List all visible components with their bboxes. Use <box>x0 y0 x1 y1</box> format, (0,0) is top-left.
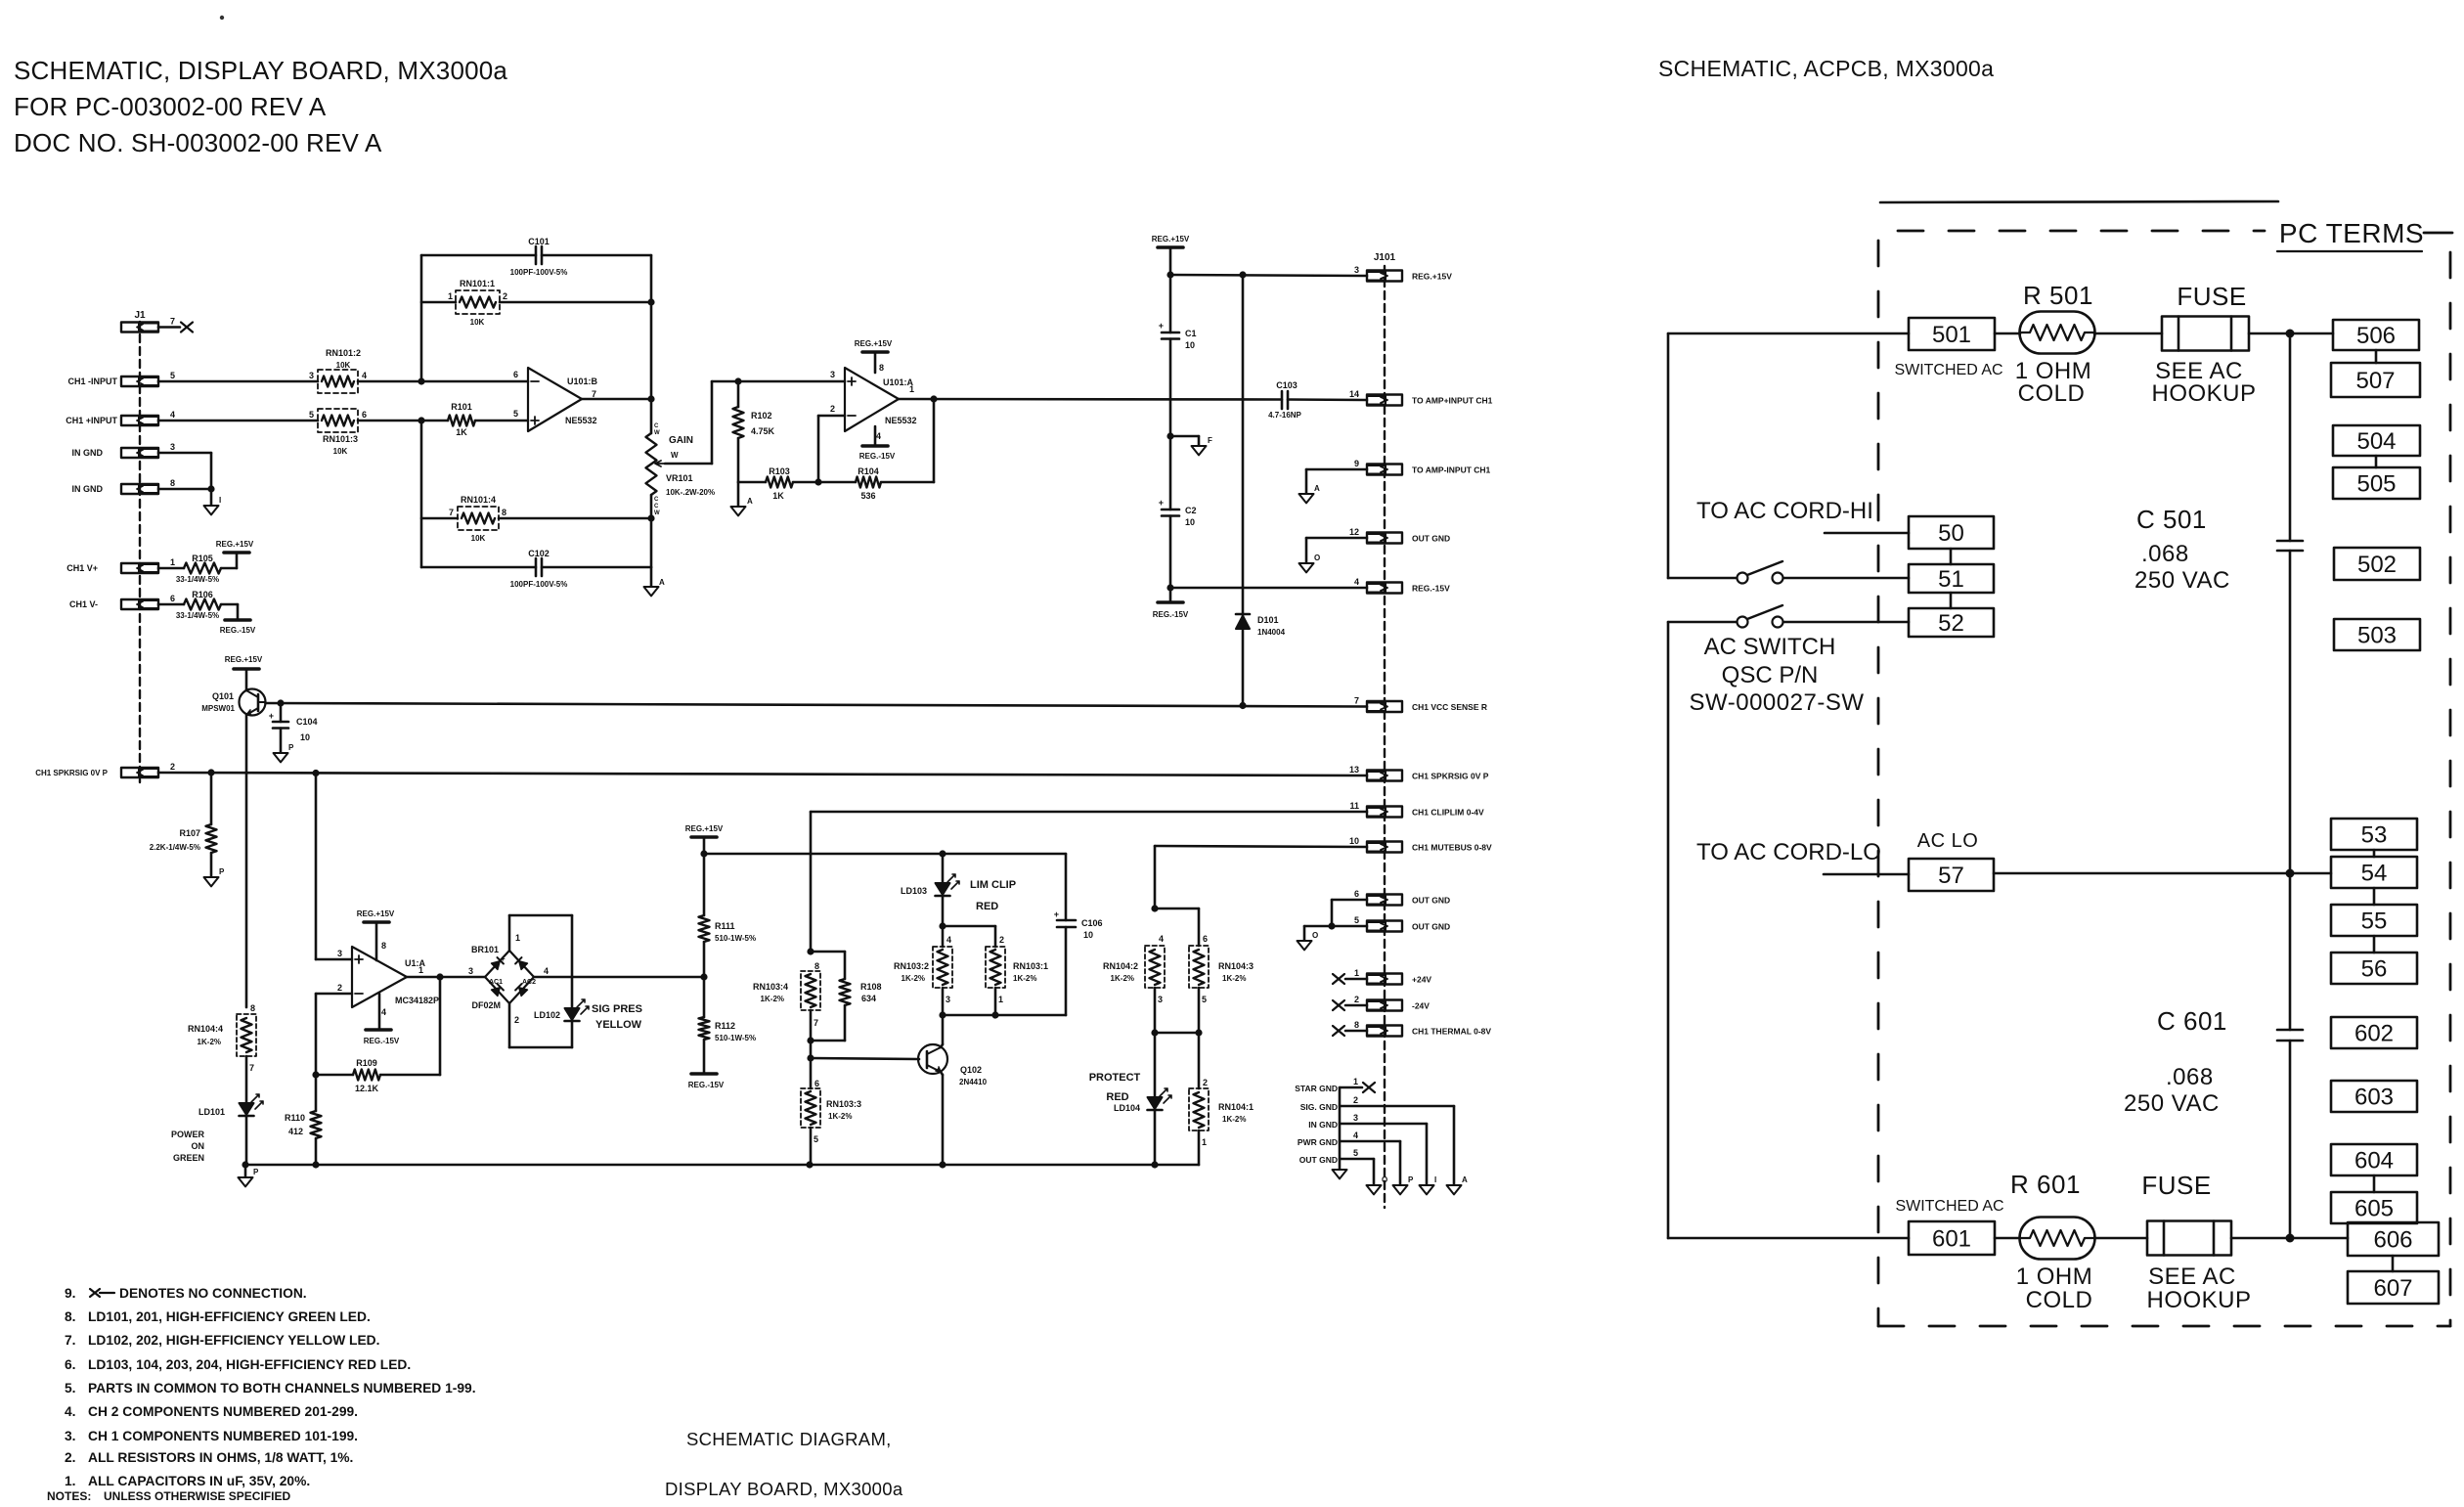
svg-text:51: 51 <box>1938 566 1964 593</box>
svg-text:8: 8 <box>814 961 819 971</box>
svg-text:7: 7 <box>249 1063 254 1073</box>
wire LD103 cathode node <box>939 896 946 947</box>
svg-text:W: W <box>654 430 660 436</box>
svg-text:7.: 7. <box>65 1333 76 1348</box>
svg-text:11: 11 <box>1349 801 1359 811</box>
svg-text:OUT GND: OUT GND <box>1412 896 1450 906</box>
J101 pin 1 (+24V) <box>1354 968 1431 985</box>
wire 501 to R501 <box>1995 332 2020 335</box>
svg-text:1 OHM: 1 OHM <box>2016 1263 2093 1290</box>
svg-text:U1:A: U1:A <box>405 958 426 968</box>
svg-text:CH1 CLIPLIM 0-4V: CH1 CLIPLIM 0-4V <box>1412 808 1484 818</box>
svg-text:HOOKUP: HOOKUP <box>2151 380 2256 407</box>
svg-text:W: W <box>654 510 660 516</box>
resistor network RN103:4 <box>753 961 820 1028</box>
J101 pin 2 (-24V) <box>1354 995 1430 1011</box>
svg-text:GAIN: GAIN <box>669 435 693 446</box>
capacitor C2 <box>1159 498 1197 527</box>
svg-text:A: A <box>1462 1175 1468 1184</box>
link 53-54 <box>2373 850 2376 857</box>
transistor Q101 <box>201 669 265 716</box>
resistor R104 <box>856 466 881 501</box>
svg-text:53: 53 <box>2361 821 2388 848</box>
svg-text:2: 2 <box>514 1015 519 1025</box>
svg-text:1N4004: 1N4004 <box>1257 628 1286 637</box>
svg-text:RN104:3: RN104:3 <box>1218 961 1254 971</box>
star ground bus <box>1340 1077 1358 1170</box>
op-amp U101:A <box>830 363 917 441</box>
no-connect pin 8 <box>1333 1026 1367 1036</box>
wire Q102 base <box>811 1058 919 1059</box>
terminal 505 <box>2333 467 2420 499</box>
svg-text:605: 605 <box>2354 1195 2394 1221</box>
ground P (star) <box>1393 1175 1415 1194</box>
ACPCB dashed border <box>1878 231 2452 1326</box>
transistor Q102 <box>918 1044 988 1086</box>
svg-text:4: 4 <box>381 1007 386 1017</box>
wire U1 output <box>407 973 485 980</box>
terminal 506 <box>2333 320 2419 350</box>
svg-text:9.: 9. <box>65 1286 76 1301</box>
svg-text:AC1: AC1 <box>489 979 503 986</box>
wire RN103:1 top <box>943 926 995 947</box>
svg-text:1.: 1. <box>65 1474 76 1488</box>
svg-text:6: 6 <box>1354 889 1359 899</box>
terminal 53 <box>2331 819 2417 850</box>
svg-text:C 601: C 601 <box>2157 1006 2227 1036</box>
terminal 54 <box>2331 857 2417 888</box>
svg-text:R105: R105 <box>192 554 213 563</box>
svg-text:13: 13 <box>1349 765 1359 775</box>
svg-text:RED: RED <box>976 901 998 912</box>
svg-text:2: 2 <box>337 983 342 993</box>
svg-text:SCHEMATIC DIAGRAM,: SCHEMATIC DIAGRAM, <box>686 1429 892 1449</box>
resistor network RN101:1 <box>448 279 507 327</box>
svg-text:14: 14 <box>1349 389 1359 399</box>
svg-text:STAR GND: STAR GND <box>1295 1084 1338 1093</box>
node feedback1 vertical <box>420 255 423 381</box>
svg-text:P: P <box>1408 1175 1414 1184</box>
resistor network RN101:3 <box>309 409 367 456</box>
capacitor C1 <box>1159 275 1197 350</box>
svg-text:3: 3 <box>1158 995 1163 1004</box>
svg-text:9: 9 <box>1354 459 1359 468</box>
svg-text:10K: 10K <box>471 534 486 543</box>
terminal 501 <box>1894 318 2002 378</box>
wire CH1 -INPUT to RN101:2 <box>158 380 318 383</box>
power REG.+15V (U101:A) <box>855 339 893 373</box>
svg-text:IN GND: IN GND <box>1308 1120 1338 1130</box>
svg-text:NE5532: NE5532 <box>565 416 597 425</box>
op-amp U1:A <box>337 941 439 1017</box>
svg-text:PARTS IN COMMON TO BOTH CHANNE: PARTS IN COMMON TO BOTH CHANNELS NUMBERE… <box>88 1381 476 1396</box>
J1 pin 5 <box>121 371 175 386</box>
svg-text:MC34182P: MC34182P <box>395 996 439 1005</box>
svg-text:CH1 VCC SENSE R: CH1 VCC SENSE R <box>1412 702 1487 712</box>
svg-text:DENOTES NO CONNECTION.: DENOTES NO CONNECTION. <box>119 1286 307 1301</box>
connector J101 <box>1374 252 1396 1208</box>
svg-text:8: 8 <box>879 363 884 373</box>
svg-text:10: 10 <box>1185 340 1195 350</box>
svg-text:412: 412 <box>288 1127 303 1136</box>
resistor network RN104:4 <box>188 1003 256 1073</box>
no-connect pin 1 <box>1333 974 1367 984</box>
svg-text:1K-2%: 1K-2% <box>1111 974 1134 983</box>
J1 pin 2 <box>121 762 175 777</box>
svg-text:R107: R107 <box>179 828 200 838</box>
wire bottom bracket <box>939 1011 1066 1018</box>
svg-text:RN103:2: RN103:2 <box>894 961 929 971</box>
resistor R 501 <box>2020 281 2095 354</box>
ground star point <box>1333 1170 1347 1178</box>
svg-text:OUT GND: OUT GND <box>1299 1155 1338 1165</box>
svg-text:REG.+15V: REG.+15V <box>1412 272 1452 282</box>
svg-text:VR101: VR101 <box>666 473 693 483</box>
capacitor C104 <box>269 703 318 753</box>
svg-text:GREEN: GREEN <box>173 1153 204 1163</box>
svg-text:REG.+15V: REG.+15V <box>216 540 254 549</box>
svg-text:IN GND: IN GND <box>72 448 104 458</box>
wire IN GND to ground I <box>1340 1124 1427 1185</box>
svg-text:CH 1 COMPONENTS NUMBERED 101-1: CH 1 COMPONENTS NUMBERED 101-199. <box>88 1429 358 1443</box>
svg-text:3: 3 <box>830 370 835 379</box>
terminal 52 <box>1909 608 1994 637</box>
svg-text:RN101:4: RN101:4 <box>461 495 496 505</box>
power REG.+15V (Q101) <box>225 655 263 669</box>
svg-text:12: 12 <box>1349 527 1359 537</box>
svg-text:+: + <box>1054 909 1059 919</box>
ground I (star) <box>1420 1175 1437 1194</box>
svg-text:A: A <box>747 497 753 506</box>
J1 pin 7 <box>121 317 175 332</box>
svg-text:10K: 10K <box>336 361 351 370</box>
J101 pin 5 (OUT GND) <box>1354 915 1450 932</box>
power REG.-15V (U1) <box>364 994 400 1045</box>
svg-text:-24V: -24V <box>1412 1001 1430 1011</box>
svg-text:REG.-15V: REG.-15V <box>859 452 896 461</box>
power REG.+15V (R111) <box>685 824 724 854</box>
svg-text:NE5532: NE5532 <box>885 416 917 425</box>
svg-text:1: 1 <box>1353 1077 1358 1086</box>
svg-text:Q102: Q102 <box>960 1065 982 1075</box>
notes list <box>47 1286 476 1503</box>
svg-text:LIM CLIP: LIM CLIP <box>970 879 1016 891</box>
svg-text:J1: J1 <box>134 310 146 321</box>
no-connect J1 pin 7 <box>158 323 193 332</box>
wire -15V row to J101 pin4 <box>1170 587 1367 590</box>
svg-text:+: + <box>269 711 274 721</box>
wire RN101:1 row <box>421 301 651 304</box>
svg-text:7: 7 <box>814 1018 818 1028</box>
link 506-507 <box>2375 350 2378 363</box>
wire 601 to R601 <box>1995 1237 2020 1240</box>
svg-text:O: O <box>1312 931 1318 940</box>
svg-text:U101:B: U101:B <box>567 377 598 386</box>
ground A (R102 node) <box>731 482 754 515</box>
wire out gnd pins 6,5 <box>1304 900 1367 941</box>
svg-text:601: 601 <box>1932 1225 1971 1252</box>
fuse F601 <box>2141 1171 2231 1256</box>
svg-text:R102: R102 <box>751 411 772 421</box>
svg-text:.068: .068 <box>2141 541 2189 567</box>
resistor R 601 <box>2010 1170 2094 1260</box>
svg-text:536: 536 <box>860 491 875 501</box>
label POWER ON GREEN <box>171 1130 205 1163</box>
svg-text:+: + <box>501 954 506 963</box>
wire S1a to 51 <box>1783 577 1909 580</box>
svg-text:3: 3 <box>468 966 473 976</box>
link 604-605 <box>2373 1175 2376 1192</box>
link 51-52 <box>1950 593 1953 608</box>
capacitor C101 <box>510 237 568 277</box>
svg-text:AC2: AC2 <box>522 979 536 986</box>
wire RN101:2 to U101:B pin6 <box>358 377 528 384</box>
wire R111 to node <box>700 942 707 981</box>
wire top loop C101 <box>421 254 651 257</box>
switch S1a <box>1668 561 1783 584</box>
wire RN104 mid bracket <box>1151 988 1202 1037</box>
svg-text:Q101: Q101 <box>212 691 234 701</box>
svg-text:ALL CAPACITORS IN uF, 35V, 20%: ALL CAPACITORS IN uF, 35V, 20%. <box>88 1474 310 1488</box>
terminal 55 <box>2331 905 2417 936</box>
terminal 503 <box>2334 619 2420 650</box>
wire R501 to fuse <box>2094 332 2162 335</box>
svg-text:PWR GND: PWR GND <box>1298 1137 1338 1147</box>
ground O (out gnd) <box>1298 931 1319 950</box>
svg-text:3: 3 <box>1354 265 1359 275</box>
svg-text:TO AMP-INPUT CH1: TO AMP-INPUT CH1 <box>1412 465 1491 475</box>
svg-text:2: 2 <box>1354 995 1359 1004</box>
resistor R109 <box>316 1058 380 1093</box>
terminal 51 <box>1909 564 1994 593</box>
svg-text:P: P <box>288 743 294 752</box>
svg-text:R108: R108 <box>860 982 882 992</box>
ground P (C104) <box>274 743 295 762</box>
svg-text:510-1W-5%: 510-1W-5% <box>715 1034 756 1042</box>
power REG.-15V (R112) <box>688 1040 725 1089</box>
svg-text:5: 5 <box>814 1134 818 1144</box>
J101 pin 10 (CH1 MUTEBUS 0-8V) <box>1349 836 1492 853</box>
LED LD101 <box>198 1094 263 1117</box>
svg-text:C102: C102 <box>528 549 550 558</box>
wire SIG GND to ground A <box>1340 1106 1454 1185</box>
svg-text:O: O <box>1382 1175 1387 1184</box>
svg-text:6: 6 <box>814 1079 819 1088</box>
resistor R101 <box>448 402 475 437</box>
svg-text:SWITCHED AC: SWITCHED AC <box>1894 362 2002 378</box>
capacitor C103 <box>1268 380 1301 420</box>
connector J1 <box>134 310 146 782</box>
ground O (star) <box>1367 1175 1388 1194</box>
wire +15V row to J101 pin3 <box>1166 271 1367 278</box>
svg-text:250 VAC: 250 VAC <box>2124 1090 2220 1117</box>
svg-text:CH1 THERMAL 0-8V: CH1 THERMAL 0-8V <box>1412 1027 1491 1037</box>
J101 pin 6 (OUT GND) <box>1354 889 1450 906</box>
label AC LO <box>1917 830 1979 852</box>
J101 pin 4 (REG.-15V) <box>1354 577 1450 594</box>
svg-text:33-1/4W-5%: 33-1/4W-5% <box>176 575 219 584</box>
svg-text:56: 56 <box>2361 955 2388 982</box>
J101 pin 13 (CH1 SPKRSIG 0V P) <box>1349 765 1489 781</box>
scan speck <box>220 16 224 20</box>
svg-text:4: 4 <box>544 966 549 976</box>
ground F <box>1170 436 1212 455</box>
wire R102 to R103 <box>737 438 740 482</box>
resistor R108 <box>811 952 882 1041</box>
svg-text:R112: R112 <box>715 1021 735 1031</box>
label TO AC CORD-LO <box>1696 839 1881 865</box>
label AC SWITCH QSC P/N SW-000027-SW <box>1690 634 1865 716</box>
svg-text:7: 7 <box>1354 696 1359 706</box>
wire RN104:1 to rail <box>1198 1130 1201 1165</box>
svg-text:PROTECT: PROTECT <box>1089 1072 1141 1084</box>
svg-text:606: 606 <box>2373 1226 2412 1253</box>
svg-text:5: 5 <box>170 371 175 380</box>
wire CH1 +INPUT to RN101:3 <box>158 420 318 422</box>
resistor network RN103:2 <box>894 935 952 1004</box>
wire RN101:4 row <box>421 517 651 520</box>
svg-text:RN101:2: RN101:2 <box>326 348 361 358</box>
wire IN GND pins 3,8 <box>158 453 215 506</box>
wire pot bottom <box>647 495 654 567</box>
svg-text:6: 6 <box>513 370 518 379</box>
resistor network RN101:2 <box>309 348 367 393</box>
ground A (pin9) <box>1299 484 1321 503</box>
no-connect pin 2 <box>1333 1000 1367 1010</box>
rail +15V to LED section <box>700 850 1066 857</box>
svg-text:DOC NO. SH-003002-00 REV A: DOC NO. SH-003002-00 REV A <box>14 128 382 157</box>
svg-text:1K-2%: 1K-2% <box>1013 974 1036 983</box>
svg-text:ON: ON <box>192 1141 205 1151</box>
label SEE AC HOOKUP (top) <box>2151 358 2256 407</box>
terminal 607 <box>2348 1271 2439 1304</box>
resistor R103 <box>738 466 793 501</box>
potentiometer VR101 <box>646 423 716 516</box>
svg-text:FUSE: FUSE <box>2177 282 2246 311</box>
J101 pin 12 (OUT GND) <box>1349 527 1450 544</box>
resistor R106 <box>176 590 221 620</box>
wire switched AC bottom <box>1668 1237 1909 1240</box>
ground P (rail) <box>239 1165 260 1186</box>
svg-text:UNLESS OTHERWISE SPECIFIED: UNLESS OTHERWISE SPECIFIED <box>104 1489 290 1502</box>
svg-text:2N4410: 2N4410 <box>959 1078 988 1086</box>
power REG.-15V (R106) <box>220 620 256 635</box>
svg-text:REG.-15V: REG.-15V <box>364 1037 400 1045</box>
wire CH1 MUTEBUS <box>1151 846 1367 912</box>
svg-text:1K-2%: 1K-2% <box>828 1112 852 1121</box>
svg-text:RN103:3: RN103:3 <box>826 1099 861 1109</box>
svg-text:604: 604 <box>2354 1147 2394 1174</box>
wire RN103:2 to bracket <box>942 988 945 1015</box>
svg-text:RN103:4: RN103:4 <box>753 982 788 992</box>
capacitor C 601 <box>2124 873 2303 1117</box>
svg-text:C101: C101 <box>528 237 550 246</box>
svg-text:HOOKUP: HOOKUP <box>2146 1287 2251 1313</box>
svg-text:REG.-15V: REG.-15V <box>688 1081 725 1089</box>
svg-text:2.2K-1/4W-5%: 2.2K-1/4W-5% <box>150 843 200 852</box>
svg-text:100PF-100V-5%: 100PF-100V-5% <box>510 268 568 277</box>
svg-text:LD101, 201, HIGH-EFFICIENCY GR: LD101, 201, HIGH-EFFICIENCY GREEN LED. <box>88 1309 371 1324</box>
switch S1b <box>1668 605 1783 628</box>
svg-text:3: 3 <box>946 995 950 1004</box>
svg-text:A: A <box>1314 484 1320 493</box>
svg-text:2: 2 <box>830 404 835 414</box>
svg-text:8: 8 <box>170 478 175 488</box>
svg-text:10: 10 <box>1349 836 1359 846</box>
svg-text:RED: RED <box>1106 1091 1128 1103</box>
terminal 606 <box>2348 1222 2439 1256</box>
terminal 50 <box>1825 516 1994 549</box>
wire LD102 loop <box>509 915 572 1047</box>
power REG.+15V (U1) <box>357 909 395 960</box>
wire PWR GND to ground P <box>1340 1141 1400 1185</box>
ground A (pot loop) <box>644 567 666 596</box>
wire RN104 top bracket <box>1155 909 1199 946</box>
terminal 604 <box>2331 1144 2417 1175</box>
svg-text:603: 603 <box>2354 1084 2394 1110</box>
svg-text:1: 1 <box>170 557 175 567</box>
svg-text:LD102: LD102 <box>534 1010 560 1020</box>
svg-text:REG.+15V: REG.+15V <box>685 824 724 833</box>
fuse F501 <box>2162 282 2249 351</box>
svg-text:SIG. GND: SIG. GND <box>1300 1102 1338 1112</box>
wire R109 to output node <box>380 977 440 1075</box>
svg-text:1: 1 <box>448 291 453 301</box>
svg-text:3: 3 <box>170 442 175 452</box>
wire RN104:4 to LD101 <box>245 1056 248 1103</box>
wire C601 down <box>2286 1041 2295 1243</box>
svg-text:QSC P/N: QSC P/N <box>1722 662 1819 688</box>
svg-text:CH1 MUTEBUS 0-8V: CH1 MUTEBUS 0-8V <box>1412 843 1492 853</box>
svg-text:NOTES:: NOTES: <box>47 1489 91 1502</box>
svg-text:501: 501 <box>1932 322 1971 348</box>
svg-text:2: 2 <box>999 935 1004 945</box>
J1 pin 8 <box>121 478 175 494</box>
svg-text:4.7-16NP: 4.7-16NP <box>1268 411 1301 420</box>
svg-text:7: 7 <box>449 508 454 517</box>
svg-text:2: 2 <box>1203 1078 1208 1087</box>
svg-text:J101: J101 <box>1374 252 1396 263</box>
svg-text:RN104:2: RN104:2 <box>1103 961 1138 971</box>
bottom rail wire <box>242 1161 1199 1168</box>
link 54-55 <box>2373 888 2376 905</box>
wire fuse to 506 <box>2249 330 2333 338</box>
wire LD101 to rail <box>245 1116 248 1165</box>
svg-text:5: 5 <box>1202 995 1207 1004</box>
svg-text:+: + <box>1159 498 1164 508</box>
svg-text:LD104: LD104 <box>1114 1103 1140 1113</box>
svg-text:YELLOW: YELLOW <box>595 1019 642 1031</box>
svg-text:CH1 +INPUT: CH1 +INPUT <box>66 416 117 425</box>
svg-text:LD103: LD103 <box>901 886 927 896</box>
wire wiper to U101:A pin3 <box>665 377 845 464</box>
svg-text:5: 5 <box>1354 915 1359 925</box>
wire R110 to rail <box>315 1138 318 1165</box>
capacitor C106 <box>1054 854 1103 1015</box>
svg-text:510-1W-5%: 510-1W-5% <box>715 934 756 943</box>
svg-text:LD101: LD101 <box>198 1107 225 1117</box>
ACPCB top line <box>1880 201 2278 202</box>
svg-text:R111: R111 <box>715 921 735 931</box>
wire fuse to 606 <box>2231 1237 2348 1240</box>
svg-text:6: 6 <box>1203 934 1208 944</box>
svg-text:1K-2%: 1K-2% <box>1222 974 1246 983</box>
svg-text:P: P <box>219 867 225 876</box>
svg-text:AC SWITCH: AC SWITCH <box>1704 634 1836 660</box>
svg-text:LD103, 104, 203, 204, HIGH-EFF: LD103, 104, 203, 204, HIGH-EFFICIENCY RE… <box>88 1357 411 1372</box>
power REG.-15V (rail) <box>1153 602 1189 619</box>
svg-text:506: 506 <box>2356 323 2396 349</box>
